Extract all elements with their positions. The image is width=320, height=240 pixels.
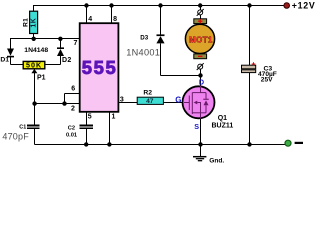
svg-text:D3: D3 [140,34,148,41]
svg-text:S: S [194,122,199,131]
svg-text:4: 4 [88,16,92,23]
svg-text:Q1: Q1 [218,115,227,122]
svg-text:G: G [175,96,181,105]
svg-text:25V: 25V [261,76,273,83]
svg-text:8: 8 [113,16,117,23]
svg-text:D2: D2 [62,57,72,64]
svg-text:7: 7 [74,40,78,47]
svg-text:Gnd.: Gnd. [209,158,224,165]
svg-text:R2: R2 [143,90,152,97]
svg-text:1: 1 [112,113,116,120]
svg-text:3: 3 [120,96,124,103]
svg-text:D: D [199,78,204,87]
svg-text:P1: P1 [37,75,46,82]
svg-text:47: 47 [146,98,154,105]
svg-text:+12V: +12V [292,1,316,11]
svg-text:6: 6 [71,85,75,92]
svg-text:R1: R1 [23,18,30,27]
svg-text:2: 2 [71,106,75,113]
svg-text:1K: 1K [31,18,38,28]
svg-text:1N4001: 1N4001 [126,48,160,58]
svg-text:C1: C1 [19,125,26,131]
svg-text:50K: 50K [26,61,42,70]
svg-text:555: 555 [82,57,118,78]
svg-text:470pF: 470pF [2,131,29,141]
svg-text:D1: D1 [0,57,9,64]
svg-text:MOT1: MOT1 [189,35,213,44]
svg-text:C2: C2 [68,125,75,131]
svg-text:1N4148: 1N4148 [24,47,48,54]
svg-text:5: 5 [88,113,92,120]
svg-text:0.01: 0.01 [66,133,77,139]
svg-text:BUZ11: BUZ11 [212,123,234,130]
